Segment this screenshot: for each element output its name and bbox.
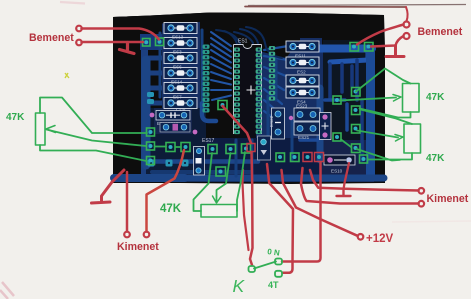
trace: top-right horizontal bus: [300, 45, 372, 53]
copper ground strip left vertical: [142, 60, 151, 165]
svg-text:K: K: [233, 276, 246, 296]
wire: green pcb jumper 2→3: [155, 146, 181, 149]
wire: kimenet left vertical 2: [147, 150, 185, 232]
node pad: left edge pot wiper: [147, 142, 155, 150]
node bemenet left circle down: [76, 40, 82, 46]
node +12V circle: [358, 234, 364, 240]
trace: left column vertical links: [160, 30, 202, 105]
node pad: row square 6: [242, 144, 251, 153]
wire: P4 top lead: [361, 110, 413, 125]
trace: arcs top center: [216, 30, 240, 44]
red annotation squares on pads: [247, 144, 324, 162]
node pad: row square 2: [166, 143, 175, 152]
svg-text:47K: 47K: [160, 203, 182, 215]
resistor ES10: [324, 155, 355, 174]
wire: P1 bottom lead: [40, 145, 147, 161]
node pad red: kimenet source: [303, 153, 312, 162]
left edge pad pair: [147, 92, 154, 97]
wire: P2 wiper vertical: [217, 153, 231, 203]
wire: to +12V: [282, 170, 358, 236]
pink smudge top-left: [60, 2, 85, 4]
trace: right vertical band: [317, 88, 324, 160]
node pad: socket-left green: [218, 101, 227, 110]
resistor right rowB ES2: [286, 57, 319, 68]
ground stub right bemenet: [386, 46, 404, 57]
svg-text:0 N: 0 N: [267, 247, 281, 258]
node pad: row square 5: [226, 145, 236, 154]
node pad: bottom right small: [360, 155, 368, 163]
svg-text:ES21: ES21: [298, 135, 310, 140]
node pad: left bemenet B: [156, 38, 164, 46]
PCB board base: [113, 13, 385, 185]
violet pad: [193, 130, 198, 135]
node pad: left edge pot top: [147, 128, 155, 136]
node pad: bottom pair A: [276, 153, 285, 162]
copper patch behind ES9 boxes: [154, 108, 192, 134]
black patch right of bus: [322, 16, 376, 45]
node bemenet left circle up: [76, 26, 82, 32]
node pad: row square 4: [208, 145, 217, 154]
node pad red: +12V source: [315, 153, 324, 162]
connector pad column J1: [203, 45, 210, 113]
diode ES8 vertical: [258, 136, 271, 160]
svg-text:Kimenet: Kimenet: [427, 193, 469, 205]
svg-text:ES6: ES6: [173, 65, 182, 70]
svg-text:Kimenet: Kimenet: [117, 241, 159, 253]
resistor row6 left: [164, 98, 197, 109]
node kimenet upper circle: [419, 188, 425, 194]
arrowhead P3 wiper: [393, 95, 401, 102]
wire: from green pad down to switch left: [223, 106, 253, 265]
capacitor pair below ES9: [160, 123, 190, 133]
svg-text:Bemenet: Bemenet: [29, 32, 74, 44]
black top-center patch: [200, 15, 300, 58]
wire: P2 left lead: [194, 153, 213, 211]
trace: right area verticals: [330, 60, 362, 160]
arrowhead P1 wiper: [46, 126, 56, 133]
arrowhead P2 wiper: [213, 196, 222, 203]
switch SW1 bottom right terminal: [275, 271, 282, 277]
node kimenet lower circle: [419, 201, 425, 207]
bottom pad row: [148, 160, 189, 167]
trace: elbow below conn column: [202, 103, 216, 121]
svg-text:47K: 47K: [6, 112, 25, 123]
svg-text:ES23: ES23: [296, 104, 308, 109]
svg-text:ES2: ES2: [297, 70, 306, 75]
trace: right wide vertical band: [366, 52, 375, 176]
wire: to switch bottom right: [267, 164, 293, 273]
capacitor ES22 vertical: [269, 108, 285, 139]
node bemenet right circle up: [404, 22, 410, 28]
copper region below left resistors: [146, 108, 206, 182]
svg-text:ES7: ES7: [173, 95, 182, 100]
resistor right rowD ES4: [286, 87, 319, 98]
svg-text:47K: 47K: [426, 153, 445, 164]
connector pad column J2: [269, 46, 275, 101]
copper region left band: [140, 34, 165, 50]
wire: P4 bottom lead: [341, 140, 412, 161]
wire: vertical to switch top right: [282, 163, 321, 262]
wire: kimenet upper right: [310, 170, 419, 191]
resistor right rowA ES11: [286, 41, 319, 52]
switch SW1 top right terminal: [275, 259, 282, 265]
svg-text:ES3: ES3: [173, 50, 182, 55]
IC socket ES1: [234, 39, 262, 135]
pads inside green squares: [144, 40, 370, 174]
node pad red: switch A source: [247, 144, 255, 152]
arrowhead P4 wiper: [395, 135, 403, 142]
wire: right bemenet lower to pad: [371, 36, 404, 47]
node pad: left edge pot bottom: [147, 157, 155, 165]
svg-text:4T: 4T: [268, 280, 279, 290]
resistor row2 left: [164, 38, 197, 49]
resistor row4 left: [164, 68, 197, 79]
trace: bottom center verticals: [236, 120, 292, 176]
resistor ES9 horizontal: [156, 111, 190, 121]
potentiometer P1 body (left): [36, 113, 46, 145]
switch SW1 left terminal: [249, 266, 256, 272]
capacitor ES23 box: [294, 104, 320, 122]
violet pad near ES21: [289, 116, 293, 120]
svg-text:ES1: ES1: [238, 39, 248, 45]
wire: right bemenet upper to pad: [357, 25, 404, 45]
resistor right rowC: [286, 75, 319, 86]
wire: second vertical beside it: [243, 170, 249, 250]
potentiometer P3 body (right top): [403, 84, 420, 113]
trace: mid horizontals right area: [300, 100, 347, 140]
trace: right vertical from bus: [330, 50, 368, 62]
trace: bottom-left horizontal band: [114, 174, 185, 182]
svg-text:47K: 47K: [426, 92, 445, 103]
wire: top line along pcb top: [245, 6, 406, 9]
wire: P1 wiper: [47, 130, 147, 147]
node pad: row square 3: [181, 143, 190, 152]
copper region right resistor field: [286, 38, 323, 140]
resistor ES16 row1 left: [164, 23, 197, 34]
potentiometer P4 body (right bottom): [404, 124, 421, 153]
resistor ES17: [194, 138, 215, 175]
trace: center-left diagonal fan: [211, 32, 231, 100]
black gap between socket columns: [240, 43, 256, 138]
black patch below right resistors: [323, 40, 374, 140]
trace: center-right diagonal fan: [264, 46, 288, 120]
node pad: right edge 2: [352, 106, 361, 115]
svg-text:ES17: ES17: [202, 138, 214, 144]
node pad: right edge 4: [352, 144, 361, 153]
wire: left bemenet upper: [82, 29, 160, 40]
node pad: bottom pair B: [291, 153, 300, 162]
node pad: right edge 1: [352, 88, 361, 97]
black patch bottom-left corner: [113, 108, 140, 172]
node pad: right inner top: [333, 96, 341, 104]
wire: ES10 pad to ground stub: [344, 163, 350, 190]
black top strip: [113, 13, 384, 27]
wire: left bemenet lower: [82, 41, 144, 44]
wire: P2 right lead: [237, 152, 245, 211]
node pad: left bemenet A: [143, 39, 151, 47]
wire: kimenet lower right: [301, 168, 419, 204]
node pad: right bemenet A: [350, 43, 359, 52]
svg-text:ES22: ES22: [269, 115, 274, 127]
wire: P3 bottom lead: [360, 109, 411, 118]
copper region socket right strip: [256, 42, 288, 142]
node kimenet left circle 1: [124, 232, 130, 238]
wire: P1 top lead: [40, 98, 147, 134]
svg-text:Bemenet: Bemenet: [418, 26, 463, 38]
copper region right bottom: [320, 140, 384, 182]
copper region mid-bottom: [206, 138, 336, 182]
wire: P4 wiper: [357, 131, 398, 138]
ground stub left bemenet: [120, 43, 135, 54]
node pad: right bemenet B: [365, 43, 374, 52]
yellow tick mark: [65, 73, 69, 78]
resistor row5 left: [164, 83, 197, 94]
capacitor ES21 box: [294, 122, 320, 140]
svg-text:+12V: +12V: [366, 233, 394, 245]
ground stub kimenet right: [337, 190, 351, 196]
IC socket pad columns U1: [234, 48, 262, 135]
wire: top line curve to circle: [406, 7, 408, 21]
pink smudge right: [392, 221, 471, 222]
node bemenet right circle down: [404, 33, 410, 39]
wire: kimenet left vertical 1: [126, 172, 129, 232]
pink smudge bottom-left: [0, 282, 14, 299]
resistor row3 left: [164, 53, 197, 64]
scanner streak line top: [248, 5, 466, 6]
copper region left resistor field: [162, 19, 200, 113]
node pad: right inner mid: [333, 133, 341, 141]
svg-text:ES10: ES10: [331, 169, 343, 174]
wire: bottom-left ground diagonal: [92, 170, 125, 203]
trace: verticals between socket and right column: [268, 60, 276, 135]
black left margin: [113, 16, 140, 183]
plus mark center: [247, 86, 256, 95]
svg-text:ES14: ES14: [171, 80, 183, 85]
violet pad: [150, 113, 155, 118]
trace: bottom-right band: [188, 175, 384, 182]
switch SW1 lever: [254, 262, 276, 269]
wire: P3 top lead: [356, 69, 411, 92]
wire: P3 wiper: [340, 98, 397, 101]
trace tongues to left resistor pads: [146, 58, 166, 103]
svg-text:ES13: ES13: [172, 35, 184, 40]
node pad: bottom mid: [216, 167, 226, 176]
trace: bottom-center horizontals: [152, 170, 250, 174]
capacitor ES20 vertical with violet pads: [320, 113, 332, 140]
node kimenet left circle 2: [144, 232, 150, 238]
black right margin: [374, 15, 385, 183]
potentiometer P2 body (bottom middle): [201, 205, 237, 218]
node pad: right edge 3: [352, 125, 361, 134]
trace: top arcs right of socket: [234, 27, 282, 58]
